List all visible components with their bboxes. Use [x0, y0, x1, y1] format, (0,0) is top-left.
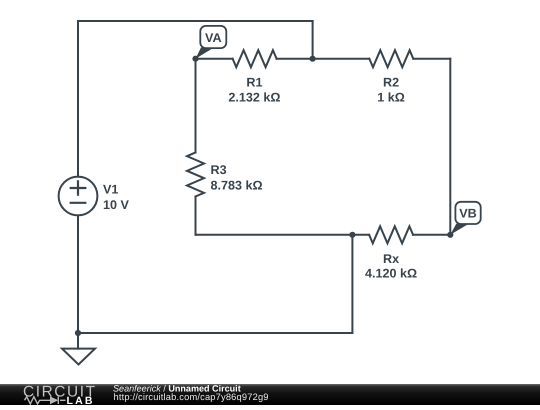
svg-text:2.132 kΩ: 2.132 kΩ: [228, 91, 280, 105]
resistor R3: [187, 153, 204, 197]
wire R2 to right rail: [413, 58, 450, 60]
svg-text:R1: R1: [246, 75, 262, 89]
svg-text:V1: V1: [103, 183, 118, 197]
node VB junction dot: [447, 232, 453, 238]
svg-text:4.120 kΩ: 4.120 kΩ: [365, 267, 417, 281]
svg-text:10 V: 10 V: [103, 198, 130, 212]
resistor R1: [233, 50, 277, 67]
wire bottom middle to Rx: [196, 234, 370, 236]
wire top-right drop to node: [312, 21, 314, 59]
node junction dot bottom: [349, 232, 355, 238]
wire VA down to R3: [195, 59, 197, 153]
svg-text:Rx: Rx: [383, 252, 399, 266]
wire R3 to bottom wire: [195, 197, 197, 235]
svg-text:1 kΩ: 1 kΩ: [377, 91, 405, 105]
svg-text:R3: R3: [211, 163, 227, 177]
svg-text:8.783 kΩ: 8.783 kΩ: [211, 178, 263, 192]
svg-text:LAB: LAB: [67, 395, 95, 405]
logo waveform: [25, 397, 66, 404]
wire R1 to node: [277, 58, 313, 60]
wire top rail: [78, 20, 313, 22]
svg-text:R2: R2: [383, 75, 399, 89]
wire Rx to VB: [413, 234, 450, 236]
wire junction down: [351, 235, 353, 333]
svg-text:VA: VA: [205, 31, 222, 45]
wire left rail lower: [77, 215, 79, 333]
wire node to R2: [313, 58, 370, 60]
wire bottom rail: [78, 332, 352, 334]
node flag VA: [196, 26, 227, 59]
wire VA to R1: [196, 58, 233, 60]
wire right rail: [449, 59, 451, 235]
resistor R2: [369, 50, 413, 67]
node ground junction dot: [75, 330, 81, 336]
svg-text:VB: VB: [459, 207, 477, 221]
svg-text:http://circuitlab.com/cap7y86q: http://circuitlab.com/cap7y86q972g9: [114, 392, 269, 402]
voltage source V1: [59, 177, 98, 216]
ground: [77, 333, 79, 349]
node junction dot top: [310, 56, 316, 62]
node flag VB: [450, 202, 480, 235]
wire left rail upper: [77, 21, 79, 177]
node VA junction dot: [192, 56, 198, 62]
resistor Rx: [369, 226, 413, 243]
